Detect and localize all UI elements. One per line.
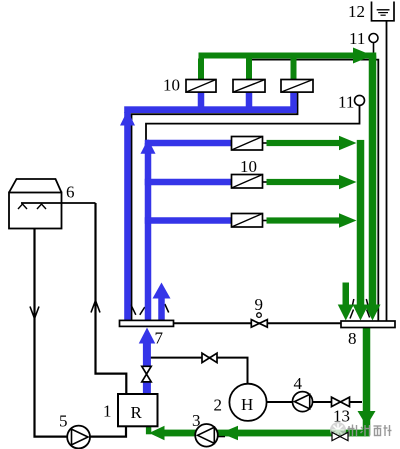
green stub down to radiator T3	[291, 59, 297, 80]
blue riser 2 (supply riser to lower radiators)	[145, 143, 152, 320]
blue riser 1 (left supply riser to top radiators)	[124, 112, 131, 320]
green branch 3 return with arrow	[267, 217, 341, 223]
green arrow into boiler R	[149, 426, 165, 441]
heater H	[229, 384, 266, 421]
svg-text:10: 10	[163, 76, 180, 95]
flow arrow down on tank-6 bottom wire	[30, 307, 39, 319]
wire heater H to pump 4	[266, 401, 293, 403]
black arrowhead remnants near header 7	[131, 305, 136, 315]
blue top horizontal main	[124, 106, 297, 113]
svg-text:7: 7	[155, 329, 164, 348]
radiator B3	[232, 214, 263, 228]
green return pipe below header 8 down with arrow	[363, 328, 371, 436]
watermark text 制冷百科 approximation	[348, 425, 392, 437]
svg-text:4: 4	[294, 374, 303, 393]
black line fragment right of pump 3	[217, 436, 225, 438]
flow arrow up on tank-6-to-R wire	[91, 301, 100, 313]
blue stub radiator T1	[198, 92, 205, 107]
valve 13b on green bottom return line	[332, 432, 348, 440]
blue branch 1 to lower radiator	[145, 140, 232, 147]
wire from expansion tank 12 down to header 8	[386, 21, 388, 321]
blue stub radiator T3	[290, 92, 297, 113]
wire tank 6 outlet down and over to boiler R top	[96, 203, 127, 394]
green bottom return horizontal to pump 3 and boiler R	[162, 430, 370, 437]
svg-text:5: 5	[59, 412, 68, 431]
svg-text:8: 8	[348, 329, 357, 348]
green top manifold	[199, 53, 377, 59]
green stub up into boiler R bottom	[146, 426, 151, 434]
blue branch 2 to lower radiator	[145, 179, 232, 186]
green left return vertical from lower branches to header 8	[357, 140, 365, 306]
svg-text:11: 11	[349, 29, 365, 48]
valve on tee line to heater H	[202, 353, 217, 362]
radiator B1	[232, 137, 263, 151]
valve 13 on pump 4 line	[332, 397, 350, 406]
header 7 (distribution header)	[120, 320, 174, 326]
expansion tank 12	[372, 2, 395, 21]
water tank 6	[9, 179, 96, 229]
green stub down to radiator T1	[198, 59, 204, 80]
wire stub from vent 11a down to green manifold corner	[373, 43, 375, 54]
svg-text:9: 9	[255, 295, 264, 314]
blue short riser stub arrow above header 7	[158, 298, 165, 321]
svg-text:2: 2	[214, 396, 223, 415]
blue branch 3 to lower radiator	[145, 217, 232, 224]
valve on blue supply below header 7	[142, 366, 151, 382]
black stub radiator B1 outlet	[263, 142, 269, 144]
green stub down to radiator T2	[246, 59, 252, 80]
svg-text:6: 6	[66, 183, 75, 202]
black arrowhead remnants near header 8	[352, 299, 354, 307]
svg-text:1: 1	[103, 402, 112, 421]
green arrow into pump 3	[221, 426, 239, 441]
svg-text:R: R	[131, 403, 143, 422]
wire tank 6 bottom down, along bottom through pump 5 to boiler R bottom	[35, 229, 68, 437]
wire black inner-loop line with stub to vent 11b	[146, 105, 360, 141]
air vent 11a	[369, 34, 378, 43]
header 8 (collection header)	[341, 321, 395, 328]
blue stub radiator T2	[246, 92, 253, 107]
valve 9 with stem circle	[251, 313, 267, 327]
pump 4	[293, 392, 313, 412]
air vent 11b	[355, 95, 365, 105]
svg-text:13: 13	[333, 407, 350, 426]
radiator T2	[233, 80, 265, 93]
svg-text:11: 11	[338, 93, 354, 112]
green arrow on manifold into riser corner	[353, 48, 373, 64]
blue supply from boiler R up into header 7	[143, 343, 151, 366]
svg-text:12: 12	[348, 2, 365, 21]
green branch 2 return with arrow	[267, 179, 341, 185]
green branch 1 return with arrow	[267, 140, 341, 146]
radiator T3	[281, 80, 313, 93]
svg-text:H: H	[241, 395, 253, 414]
green main right riser down to header 8	[369, 56, 377, 307]
svg-text:3: 3	[192, 411, 201, 430]
green short stub arrow into header 8	[343, 283, 350, 307]
wire pump 4 through valve 13 to green riser	[312, 401, 362, 403]
radiator T1	[186, 80, 216, 93]
black stub radiator B3 outlet	[263, 220, 269, 222]
watermark snowflake logo	[330, 422, 346, 438]
wire tee from blue pipe to heater H	[150, 358, 248, 384]
boiler R	[118, 394, 158, 426]
radiator B2	[232, 175, 263, 189]
pump 5	[67, 426, 90, 449]
black stub radiator B2 outlet	[263, 181, 269, 183]
pump 3	[195, 424, 218, 447]
wire black line under green manifold down right side to header 8	[251, 60, 378, 321]
wire header 7 to header 8 connecting line	[174, 322, 342, 324]
svg-text:10: 10	[240, 157, 257, 176]
wire black line under top blue horizontal (original pipe from radiator T3 down to header 7)	[132, 92, 298, 320]
